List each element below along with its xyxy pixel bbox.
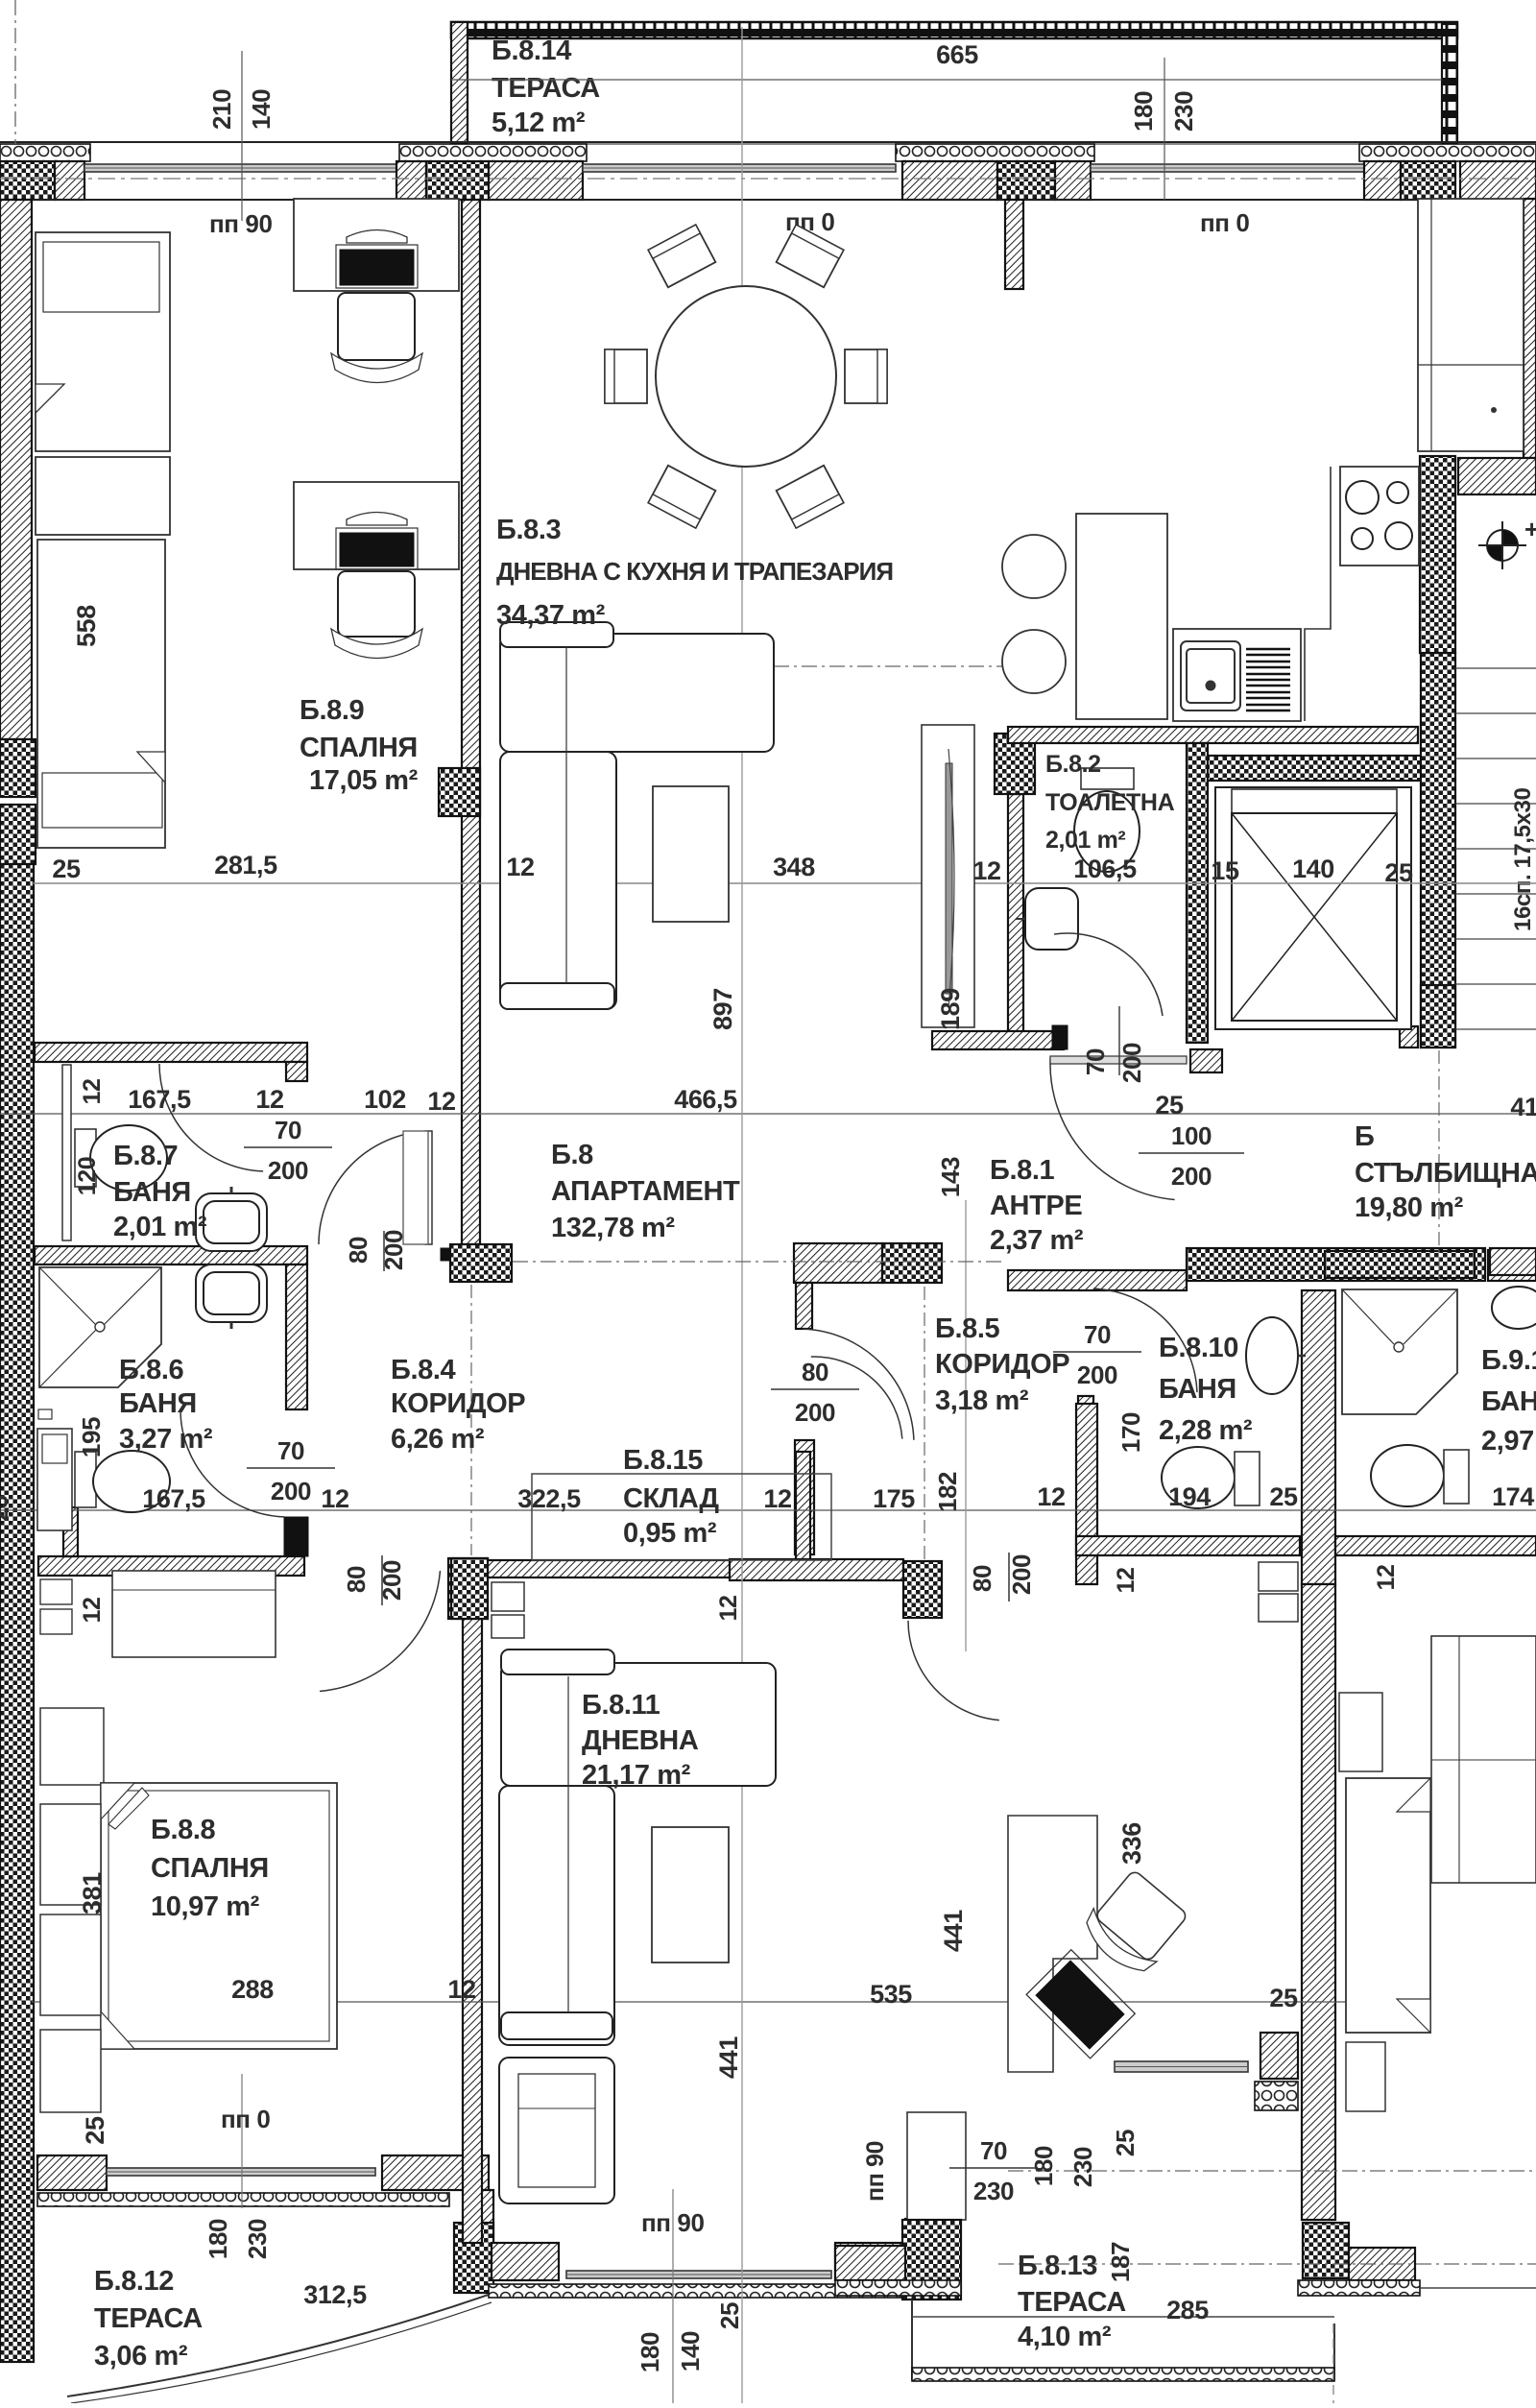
dresser B.8.8 left (40, 1708, 104, 1785)
coffee table B.8.11 (652, 1827, 729, 1963)
door arc corridor B.8.5 right / bath B.8.10 (1093, 1288, 1197, 1392)
svg-text:441: 441 (939, 1910, 968, 1952)
horizontal dim line y2085 (32, 2001, 1402, 2003)
horizontal dim line y1160 (0, 1113, 1536, 1115)
corridor B.8.5 hatch block NW (794, 1243, 882, 1283)
dash-dot x1499 stairwell (1438, 1050, 1440, 1282)
svg-text:200: 200 (377, 1560, 406, 1601)
elevator top checker band (1203, 756, 1448, 781)
toilet B.8.7 tank (75, 1129, 96, 1187)
chair 2 B.8.9 (338, 571, 415, 637)
bed right apartment (1346, 1778, 1430, 2033)
svg-text:Б.8.12: Б.8.12 (94, 2266, 174, 2297)
svg-text:25: 25 (1155, 1091, 1184, 1120)
elevator west checker wall (1187, 743, 1208, 1043)
wall B.8.6 right segment (286, 1264, 307, 1409)
terrace sill line (0, 141, 1536, 143)
bath partition line B.8.7 (62, 1065, 71, 1240)
desk1 monitor dark (340, 250, 414, 285)
double sink B.8.7 (196, 1193, 267, 1251)
corridor B.8.5 checker block N (882, 1243, 942, 1283)
svg-text:пп 90: пп 90 (209, 209, 273, 238)
svg-text:12: 12 (506, 853, 534, 881)
svg-text:Б.8.2: Б.8.2 (1045, 751, 1101, 778)
svg-text:897: 897 (708, 988, 737, 1030)
sink B.9.1 corner (1492, 1287, 1536, 1329)
svg-text:АПАРТАМЕНТ: АПАРТАМЕНТ (551, 1176, 740, 1207)
svg-text:230: 230 (1068, 2147, 1097, 2187)
svg-text:288: 288 (231, 1975, 274, 2004)
window bottom-right bedroom (1115, 2061, 1248, 2072)
shower B.9.1 (1342, 1289, 1457, 1414)
dash-dot y694 living (774, 665, 1018, 667)
svg-text:Б.9.1: Б.9.1 (1481, 1345, 1536, 1376)
apartment divider wall lower (1302, 1584, 1335, 2220)
sill line right bottom (1420, 2287, 1536, 2289)
toilet B.8.6 bowl (93, 1451, 170, 1512)
B.8.10 south wall (1076, 1536, 1300, 1555)
svg-text:пп 0: пп 0 (1200, 208, 1250, 237)
sofa L vertical part (500, 752, 616, 1009)
toilet B.8.10 tank (1235, 1452, 1260, 1505)
west wall checker block B (0, 805, 36, 864)
desk1 shelf arc (347, 230, 407, 244)
svg-text:СПАЛНЯ: СПАЛНЯ (300, 733, 418, 763)
svg-text:пп 0: пп 0 (221, 2105, 271, 2133)
svg-text:194: 194 (1168, 1482, 1211, 1511)
top wall pier right hatch2 (1460, 161, 1536, 200)
wall between baths B.8.7/B.8.6 (35, 1246, 307, 1264)
svg-text:16сп. 17,5x30: 16сп. 17,5x30 (1510, 788, 1536, 931)
dash-dot y1314 apartment (513, 1261, 1006, 1263)
svg-text:441: 441 (714, 2036, 743, 2079)
svg-text:167,5: 167,5 (128, 1085, 191, 1114)
corridor B.8.5 south checker block (903, 1561, 942, 1618)
west wall hatch upper (0, 200, 32, 739)
elevator door band (1232, 789, 1397, 813)
wall post sklad east (795, 1440, 814, 1554)
sklad B.8.15 outline (532, 1474, 831, 1560)
terrace B.8.13 top line (912, 2316, 1334, 2318)
svg-text:3,27 m²: 3,27 m² (119, 1424, 213, 1455)
svg-text:4,10 m²: 4,10 m² (1018, 2322, 1112, 2352)
door arc bedroom B.8.8 (320, 1571, 441, 1692)
svg-text:12: 12 (79, 1597, 106, 1623)
svg-text:200: 200 (1117, 1043, 1146, 1083)
top wall pier mid hatch2 (1055, 161, 1091, 200)
svg-text:665: 665 (936, 40, 978, 69)
corridor B.8.5 west wall lower (796, 1452, 810, 1569)
svg-text:322,5: 322,5 (517, 1484, 581, 1513)
svg-text:230: 230 (973, 2177, 1014, 2205)
shower B.8.6 (39, 1267, 161, 1387)
level marker cross (1478, 521, 1526, 569)
vertical dim line x252 (241, 51, 243, 221)
svg-text:АНТРЕ: АНТРЕ (990, 1191, 1082, 1221)
stairwell bottom checker band (1325, 1251, 1475, 1278)
elevator checker block SE (1421, 985, 1455, 1047)
top wall pier hatch wide (489, 161, 583, 200)
elevator small hatch SE (1400, 1026, 1418, 1047)
sink B.8.10 (1246, 1317, 1298, 1394)
door arc corridor B.8.5 left (803, 1329, 914, 1440)
door leaf entry (1050, 1056, 1187, 1064)
svg-text:25: 25 (1384, 858, 1413, 887)
kitchen island (1076, 514, 1167, 719)
terrace B.8.12 right checker (454, 2223, 493, 2293)
svg-text:ТЕРАСА: ТЕРАСА (492, 73, 600, 104)
svg-text:Б.8.6: Б.8.6 (119, 1355, 183, 1385)
terrace B.8.14 left wall (451, 22, 468, 144)
wall post B.8.7 door (286, 1062, 307, 1081)
coffee table living (653, 786, 729, 922)
window right top (1091, 164, 1364, 172)
dash-dot axis x16 top-left (14, 0, 16, 144)
sofa cushion bottom (500, 983, 614, 1009)
svg-text:80: 80 (968, 1565, 996, 1592)
svg-text:34,37 m²: 34,37 m² (496, 600, 606, 631)
bed B.8.8 (101, 1783, 337, 2049)
svg-text:Б.8.3: Б.8.3 (496, 515, 561, 545)
B.8.8 south wall east pier (382, 2155, 489, 2190)
divider wall B.8.10/B.9.1 (1302, 1290, 1335, 1584)
terrace door / window strip (583, 164, 896, 172)
sofa B.8.11 horizontal (501, 1663, 776, 1786)
toilet B.9.1 bowl (1371, 1445, 1444, 1506)
top wall pier far-left hatch (55, 161, 84, 200)
dining table (656, 286, 836, 467)
svg-text:70: 70 (277, 1436, 304, 1465)
B.8.11 west wall (463, 1619, 482, 2243)
vertical axis x1006 corridor (965, 1200, 967, 1651)
svg-text:Б.8.4: Б.8.4 (391, 1355, 455, 1385)
dash-dot corridor x963 (924, 1287, 925, 1565)
sofa B.8.11 cushion (501, 2012, 612, 2039)
dot band below B.8.8 wall (37, 2193, 449, 2206)
bed B.8.9 upper rect (36, 232, 170, 451)
B.9.1 south wall (1335, 1536, 1536, 1555)
svg-text:25: 25 (0, 1495, 13, 1522)
svg-text:25: 25 (81, 2116, 109, 2145)
svg-text:120: 120 (74, 1157, 101, 1196)
svg-text:25: 25 (1269, 1984, 1298, 2012)
nightstand B.8.8 low (40, 1804, 101, 1905)
stove (1340, 467, 1419, 566)
elevator east checker wall (1421, 653, 1455, 1047)
toilet B.8.6 tank (75, 1452, 96, 1507)
svg-text:КОРИДОР: КОРИДОР (391, 1388, 525, 1419)
svg-text:Б.8.13: Б.8.13 (1018, 2251, 1097, 2281)
door arc entry apartment (1050, 1057, 1175, 1200)
svg-text:12: 12 (1037, 1482, 1065, 1511)
svg-text:200: 200 (271, 1477, 311, 1505)
dish rack dark lines (1246, 649, 1290, 710)
wardrobe right apt (1431, 1636, 1536, 1883)
svg-text:25: 25 (1111, 2130, 1140, 2156)
svg-text:312,5: 312,5 (303, 2280, 367, 2309)
blanket line bed B.8.9 (42, 773, 162, 828)
window centre dash-dot axis (0, 178, 1536, 180)
svg-text:70: 70 (980, 2136, 1007, 2165)
svg-text:100: 100 (1171, 1121, 1212, 1150)
duct squares top of B.8.11 (492, 1582, 524, 1611)
svg-text:41: 41 (1510, 1093, 1536, 1121)
svg-text:Б.8.1: Б.8.1 (990, 1155, 1054, 1186)
svg-text:182: 182 (933, 1472, 962, 1512)
svg-text:336: 336 (1117, 1822, 1146, 1865)
svg-text:175: 175 (873, 1484, 915, 1513)
B.8.11 south wall west pier (492, 2243, 559, 2280)
svg-text:80: 80 (342, 1566, 371, 1593)
vertical building axis x773 (741, 27, 743, 2403)
svg-text:25: 25 (715, 2302, 744, 2329)
svg-text:Б.8.14: Б.8.14 (492, 36, 571, 66)
main horizontal axis y920 (32, 882, 1536, 884)
svg-text:102: 102 (364, 1085, 406, 1114)
pillow fold B.8.9 upper (36, 384, 64, 413)
svg-text:БАНЯ: БАНЯ (113, 1177, 191, 1208)
svg-text:281,5: 281,5 (214, 851, 277, 879)
sink basin (1181, 641, 1240, 710)
dimension 665 terrace width (451, 79, 1442, 81)
svg-text:СКЛАД: СКЛАД (623, 1483, 719, 1514)
antre south-east hatch (1488, 1250, 1536, 1281)
svg-text:200: 200 (795, 1398, 835, 1427)
cabinet dot (1491, 407, 1497, 413)
west wall checker lower (0, 864, 34, 2362)
sofa L horizontal part (500, 634, 774, 752)
svg-text:12: 12 (321, 1484, 348, 1513)
dining chairs (648, 225, 715, 287)
column checker on divider (439, 768, 480, 816)
top wall insulation dot bands (0, 144, 90, 161)
svg-text:12: 12 (1373, 1564, 1400, 1590)
wall corridor south (sklad north) (488, 1560, 831, 1577)
svg-text:12: 12 (255, 1085, 283, 1114)
vertical dash x1389 below terrace (1332, 2324, 1334, 2403)
svg-text:180: 180 (1029, 2146, 1058, 2186)
corridor B.8.5 east wall (1078, 1396, 1093, 1569)
toilet B.8.10 bowl (1162, 1447, 1235, 1508)
svg-text:140: 140 (247, 89, 276, 130)
svg-text:12: 12 (79, 1078, 106, 1104)
svg-text:СТЪЛБИЩНА: СТЪЛБИЩНА (1355, 1158, 1536, 1189)
washer B.8.6 (37, 1429, 72, 1530)
bath B.8.6 washer niche wall (38, 1409, 52, 1419)
svg-text:143: 143 (936, 1157, 965, 1197)
svg-text:132,78 m²: 132,78 m² (551, 1213, 675, 1243)
antre south wall hatch (1008, 1270, 1187, 1290)
svg-text:Б.8.11: Б.8.11 (582, 1690, 660, 1721)
sofa inner line (565, 647, 567, 983)
sofa B.8.11 vertical (499, 1786, 614, 2045)
svg-text:12: 12 (763, 1484, 791, 1513)
desk2 monitor dark (340, 533, 414, 566)
svg-text:+: + (1524, 515, 1536, 543)
dot band left B.8.13 (835, 2280, 961, 2296)
cabinet niche by corridor door (403, 1131, 428, 1244)
svg-text:Б.8.8: Б.8.8 (151, 1815, 215, 1845)
nightstand right apt top (1339, 1693, 1382, 1771)
desk 1 B.8.9 (294, 199, 459, 291)
hatch band right of B.8.13 (1349, 2248, 1415, 2280)
svg-text:СПАЛНЯ: СПАЛНЯ (151, 1853, 269, 1884)
toilet B.8.2 tank (1081, 768, 1134, 789)
svg-text:189: 189 (936, 988, 965, 1030)
closet with mirror (922, 725, 974, 1027)
svg-text:БАНЯ: БАНЯ (1159, 1374, 1236, 1405)
terrace B.8.13 left checker (902, 2220, 961, 2300)
black post bedroom door (284, 1517, 308, 1556)
svg-text:17,05 m²: 17,05 m² (309, 765, 419, 796)
toilet B.9.1 tank (1444, 1450, 1469, 1504)
checker below divider (1303, 2223, 1349, 2278)
top wall pier mid hatch (902, 161, 997, 200)
svg-text:15: 15 (1211, 856, 1239, 885)
svg-text:ТЕРАСА: ТЕРАСА (94, 2303, 203, 2334)
wall bath B.8.7 top (35, 1043, 307, 1062)
wall B.8.6 bottom / B.8.8 top (38, 1556, 304, 1576)
dash-dot x491 corridor low (470, 1285, 472, 1555)
top wall pier left-of-terrace-door hatch (396, 161, 426, 200)
pillow fold B.8.8 top (101, 1783, 134, 1819)
svg-text:2,97: 2,97 (1481, 1426, 1534, 1457)
checker block end of divider (450, 1244, 512, 1282)
B.8.11 south checker block (905, 2219, 943, 2278)
B.8.10 west wall (1076, 1404, 1097, 1584)
svg-text:180: 180 (1129, 91, 1158, 132)
office laptop dark (1026, 1950, 1135, 2059)
svg-text:12: 12 (447, 1975, 475, 2004)
sink B.8.2 (1025, 888, 1078, 950)
svg-text:174: 174 (1492, 1482, 1534, 1511)
svg-text:3,18 m²: 3,18 m² (935, 1385, 1029, 1416)
B.8.8 south wall west pier (37, 2155, 107, 2190)
black post left of checker (441, 1248, 449, 1261)
svg-text:70: 70 (1084, 1320, 1111, 1349)
svg-text:140: 140 (1292, 855, 1334, 883)
svg-text:пп 90: пп 90 (641, 2208, 705, 2237)
pillow fold bed B.8.9 (137, 752, 165, 783)
svg-text:180: 180 (204, 2219, 232, 2259)
desk2 shelf arc (347, 513, 407, 526)
svg-text:140: 140 (676, 2331, 705, 2372)
wall bedroom-living divider (462, 200, 480, 1244)
post left of B.8.8 wardrobe (63, 1507, 78, 1556)
nightstand right apt bottom (1346, 2042, 1385, 2111)
kitchen south wall (1008, 727, 1418, 743)
corridor B.8.5 south wall (730, 1559, 903, 1580)
svg-text:3,06 m²: 3,06 m² (94, 2341, 188, 2372)
bar stool 1 (1002, 535, 1066, 598)
svg-text:200: 200 (1007, 1554, 1036, 1595)
elevator cab outer (1215, 787, 1411, 1029)
svg-text:200: 200 (379, 1230, 408, 1270)
wardrobe B.8.8 top (112, 1571, 276, 1657)
vertical line x252 bottom (241, 2074, 243, 2208)
svg-text:ДНЕВНА: ДНЕВНА (582, 1725, 699, 1756)
svg-text:285: 285 (1166, 2296, 1209, 2324)
svg-text:Б.8.15: Б.8.15 (623, 1445, 703, 1476)
toilet B.8.2 bowl (1074, 791, 1140, 872)
desk 2 B.8.9 (294, 482, 459, 569)
taps (230, 1187, 233, 1193)
sofa B.8.11 back top (501, 1649, 614, 1674)
svg-text:19,80 m²: 19,80 m² (1355, 1192, 1464, 1223)
bench B.8.8 bottom (40, 2030, 101, 2112)
armchair B.8.11 (499, 2058, 614, 2203)
elevator cab inner with X (1232, 813, 1397, 1021)
svg-text:21,17 m²: 21,17 m² (582, 1760, 691, 1791)
svg-text:КОРИДОР: КОРИДОР (935, 1349, 1069, 1380)
svg-text:200: 200 (1077, 1361, 1117, 1389)
svg-text:Б.8.10: Б.8.10 (1159, 1333, 1238, 1363)
terrace B.8.14 top balustrade wall (451, 22, 1457, 38)
svg-text:2,01 m²: 2,01 m² (113, 1212, 207, 1242)
kitchen tall cabinet (1418, 199, 1524, 451)
corridor B.8.5 corner stub (796, 1283, 812, 1329)
bed B.8.9 lower (37, 540, 165, 848)
sofa back cushion top (500, 622, 613, 647)
door arc bath B.8.6 (180, 1409, 284, 1517)
svg-text:2,37 m²: 2,37 m² (990, 1225, 1084, 1256)
svg-text:210: 210 (207, 89, 236, 130)
top wall pier checker (426, 161, 489, 200)
svg-text:ТОАЛЕТНА: ТОАЛЕТНА (1045, 789, 1175, 816)
stairwell bottom hatch east (1490, 1248, 1536, 1275)
wall stub living-kitchen (1005, 200, 1023, 289)
svg-text:10,97 m²: 10,97 m² (151, 1891, 260, 1922)
kitchen counter edge (1305, 467, 1331, 721)
svg-text:12: 12 (1113, 1567, 1140, 1593)
svg-text:535: 535 (870, 1980, 912, 2009)
toilet B.8.2 south wall (932, 1031, 1064, 1049)
svg-text:2,01 m²: 2,01 m² (1045, 827, 1125, 854)
wardrobe B.8.9 (36, 457, 170, 535)
office desk (1008, 1816, 1097, 2072)
vertical line x701 bottom (672, 2189, 674, 2403)
west wall checker block A (0, 739, 36, 797)
terrace B.8.13 bottom dotted band (912, 2368, 1334, 2381)
svg-text:2,28 m²: 2,28 m² (1159, 1415, 1253, 1446)
svg-text:187: 187 (1106, 2242, 1135, 2282)
terrace B.8.12 right wall (471, 2190, 493, 2293)
chair 1 B.8.9 (338, 293, 415, 360)
svg-text:195: 195 (77, 1417, 106, 1457)
B.8.11 south wall east pier (835, 2243, 902, 2280)
svg-text:6,26 m²: 6,26 m² (391, 1424, 485, 1455)
terrace B.8.13 cupboard (907, 2112, 966, 2220)
svg-text:Б: Б (1355, 1121, 1374, 1152)
svg-text:25: 25 (1269, 1482, 1298, 1511)
top wall pier mid checker (997, 161, 1055, 200)
svg-text:5,12 m²: 5,12 m² (492, 108, 586, 138)
checker block corridor south-west (448, 1558, 488, 1619)
door arc sklad small (811, 1357, 902, 1439)
svg-text:200: 200 (268, 1156, 308, 1185)
svg-text:Б.8: Б.8 (551, 1140, 593, 1170)
east checker wall segment (1420, 456, 1455, 653)
office chair rotated (1076, 1866, 1192, 1982)
svg-text:230: 230 (243, 2219, 272, 2259)
terrace B.8.14 right balustrade wall (1442, 24, 1457, 146)
svg-text:80: 80 (802, 1358, 828, 1386)
top wall pier far-left checker (0, 161, 55, 200)
svg-text:БАНЯ: БАНЯ (119, 1388, 197, 1419)
svg-text:25: 25 (52, 855, 81, 883)
door leaf corridor-living (425, 1131, 432, 1244)
door arc bath B.8.7 (159, 1064, 263, 1171)
